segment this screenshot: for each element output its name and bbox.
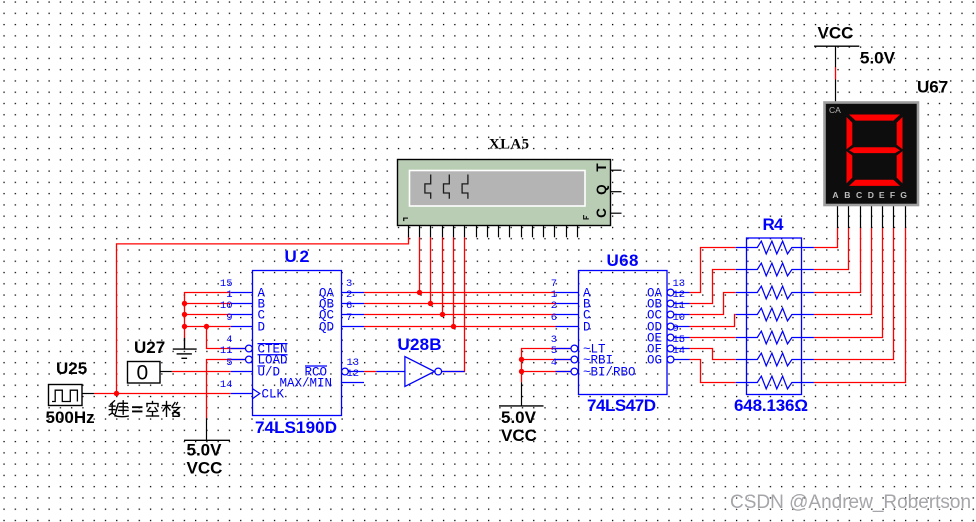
wire VCC to display CA [835, 67, 837, 80]
U68 box [579, 271, 668, 395]
svg-text:U28B: U28B [398, 335, 442, 354]
svg-text:R4: R4 [763, 215, 785, 234]
U2 pin D stub [231, 326, 253, 328]
watermark CSDN [730, 492, 972, 514]
op U68 74LS47D decoder [551, 251, 690, 415]
svg-text:MAX/MIN: MAX/MIN [279, 376, 332, 390]
wire U2 inputs A-D tied to ground rail [185, 293, 231, 339]
wire LOAD to 5V rail below U2 [207, 360, 246, 419]
wire CLK net: U25 output to U2 CLK [94, 393, 231, 395]
svg-text:5.0V: 5.0V [187, 441, 223, 460]
wire CTEN to D net [207, 327, 246, 349]
svg-text:0: 0 [137, 362, 149, 385]
VCC bar [814, 45, 859, 47]
U67 segment e [847, 151, 853, 183]
svg-text:D: D [868, 190, 874, 200]
svg-text:14: 14 [220, 379, 233, 391]
glyph = [133, 407, 142, 411]
junction dot CLK [114, 391, 119, 396]
wire OF to R4 row6 [690, 349, 736, 360]
U28B input stub [376, 371, 405, 373]
svg-text:U67: U67 [917, 78, 948, 97]
svg-text:U68: U68 [607, 251, 639, 270]
wire OB to R4 row2 [690, 270, 736, 304]
svg-text:7: 7 [346, 312, 352, 324]
U28B triangle [405, 357, 435, 387]
U2 pin B stub [231, 303, 253, 305]
svg-text:11: 11 [673, 300, 686, 312]
wire OA to R4 row1 [690, 248, 736, 293]
glyph 键 [109, 401, 128, 417]
resistor R4 element 6 [736, 353, 814, 366]
svg-text:6: 6 [346, 300, 352, 312]
U27 body [128, 362, 161, 384]
stem [521, 382, 523, 406]
U68 pin D stub [556, 326, 579, 328]
U68 pin ~LT stub and bubble [556, 348, 571, 350]
U2 pin QD stub [342, 326, 365, 328]
wire R4 row4 to display pin D [814, 228, 872, 315]
XLA5 corner icon left [403, 218, 408, 222]
resistor R4 element 3 [736, 286, 814, 299]
U68 pin ~RBI stub and bubble [556, 359, 571, 361]
svg-text:500Hz: 500Hz [46, 408, 95, 427]
resistor pack R4 [734, 215, 808, 415]
svg-text:D: D [583, 321, 591, 335]
resistor R4 element 2 [736, 263, 814, 276]
wire OE to R4 row5 [690, 337, 736, 339]
U67 segment d [849, 180, 900, 186]
junction dot C input [182, 312, 187, 317]
svg-text:5: 5 [551, 345, 557, 357]
junction dot B input [182, 301, 187, 306]
U67 top pin [835, 80, 837, 104]
power VCC below U68 [499, 382, 544, 445]
svg-text:VCC: VCC [187, 459, 223, 478]
U68 pin B stub [556, 303, 579, 305]
svg-text:12: 12 [347, 368, 360, 380]
wire QC: U2 to U68 C [364, 314, 556, 316]
svg-text:XLA5: XLA5 [489, 137, 529, 153]
junction dot D input [182, 324, 187, 329]
XLA5 waveform glyph 1 [425, 175, 431, 199]
U2 pin QB stub [342, 303, 365, 305]
U25 clock glyph [52, 390, 77, 401]
display U67 seven segment [825, 78, 949, 229]
svg-text:U/D: U/D [258, 365, 281, 379]
U25 body [49, 385, 83, 406]
wire CLK branch up-left loop to XLA5 pin1 [117, 237, 409, 394]
svg-text:648.136Ω: 648.136Ω [734, 396, 808, 415]
wire U68 ~LT ~RBI ~BI/RBO to 5V rail [522, 349, 571, 383]
stem [206, 418, 208, 440]
wire QA: U2 to U68 A [364, 292, 556, 294]
svg-text:5: 5 [226, 357, 232, 369]
U67 pins A-G [838, 205, 906, 228]
wire OG to R4 row7 [690, 360, 736, 383]
U67 pin letters [832, 190, 907, 200]
svg-text:74LS190D: 74LS190D [255, 418, 337, 437]
U68 pin ~BI/RBO stub and bubble [556, 371, 571, 373]
U67 segment b [897, 117, 903, 149]
wire RCO to U28B input [364, 371, 376, 373]
U2 pin CLK stub and wedge [231, 393, 253, 395]
svg-text:A: A [832, 190, 838, 200]
svg-text:B: B [844, 190, 850, 200]
resistor R4 element 4 [736, 308, 814, 321]
svg-text:U2: U2 [285, 247, 310, 266]
wire R4 row3 to display pin C [814, 228, 861, 293]
junction dot CTEN/D [204, 324, 209, 329]
wire XLA5 pin4 to QC net [442, 237, 444, 314]
svg-text:CSDN @Andrew_Robertson: CSDN @Andrew_Robertson [730, 492, 971, 513]
svg-text:CA: CA [829, 105, 841, 115]
U67 body [825, 103, 919, 206]
U2 pin RCO bubble and stub [342, 368, 349, 375]
svg-text:D: D [258, 321, 266, 335]
svg-text:6: 6 [551, 312, 557, 324]
U28B output bubble [435, 368, 442, 375]
wire R4 row6 to display pin F [814, 228, 894, 360]
junction dot ~BI/RBO [519, 369, 524, 374]
svg-text:E: E [879, 190, 885, 200]
power VCC below U2 [184, 418, 230, 477]
wire QB: U2 to U68 B [364, 303, 556, 305]
ground symbol [173, 338, 197, 358]
U68 pin C stub [556, 314, 579, 316]
wire R4 row1 to display pin A [814, 228, 838, 248]
XLA5 waveform glyph 3 [462, 175, 468, 199]
wire OD to R4 row4 [690, 315, 736, 327]
U67 segment g [849, 147, 900, 153]
svg-text:11: 11 [220, 345, 233, 357]
glyph 格 [163, 402, 180, 417]
U2 pin CTEN stub and bubble [231, 348, 246, 350]
U2 pin C stub [231, 314, 253, 316]
instrument XLA5 logic analyzer [398, 137, 622, 238]
svg-text:10: 10 [220, 300, 233, 312]
U2 pin A stub [231, 292, 253, 294]
junction dot QA [417, 290, 422, 295]
svg-text:14: 14 [673, 345, 686, 357]
bar [499, 405, 544, 407]
wire R4 row2 to display pin B [814, 228, 849, 270]
XLA5 body [398, 160, 611, 226]
source U25 500Hz clock [46, 359, 95, 427]
svg-text:U27: U27 [134, 338, 165, 357]
resistor R4 element 1 [736, 241, 814, 254]
wire U27 to U/D [172, 371, 231, 373]
svg-text:VCC: VCC [818, 24, 854, 43]
op-amp U28B inverter gate [376, 335, 464, 387]
XLA5 screen [410, 171, 586, 207]
XLA5 corner icon right [583, 215, 589, 220]
U2 pin U/D stub [231, 371, 253, 373]
resistor R4 element 5 [736, 331, 814, 344]
junction dot QC [440, 312, 445, 317]
VCC stem [835, 46, 837, 67]
bar [184, 439, 230, 441]
wire R4 row7 to display pin G [814, 228, 906, 383]
U68 output bubbles and stubs OA-OG [667, 289, 674, 296]
U2 pin LOAD stub and bubble [231, 359, 246, 361]
key caption 键 = 空格 [109, 401, 179, 417]
svg-text:F: F [890, 190, 895, 200]
op U2 74LS190D counter [220, 247, 364, 437]
wire OC to R4 row3 [690, 293, 736, 315]
svg-text:C: C [594, 208, 609, 218]
wire R4 row5 to display pin E [814, 228, 883, 338]
svg-text:4: 4 [551, 357, 557, 369]
U28B output stub [442, 371, 465, 373]
svg-text:5.0V: 5.0V [501, 408, 537, 427]
U67 segment c [897, 151, 903, 183]
junction dot QD [451, 324, 456, 329]
svg-text:OG: OG [647, 353, 662, 367]
U2 pin QC stub [342, 314, 365, 316]
wire XLA5 pin6 to U28B output [442, 237, 465, 371]
svg-text:2: 2 [551, 300, 557, 312]
junction dot QB [428, 301, 433, 306]
svg-text:Q: Q [594, 184, 609, 195]
svg-text:74LS47D: 74LS47D [587, 396, 656, 415]
power VCC top [814, 24, 896, 68]
U2 pin QA stub [342, 292, 365, 294]
U27 output stub [160, 371, 172, 373]
U2 box [253, 271, 342, 416]
svg-text:VCC: VCC [501, 426, 537, 445]
U67 segment f [847, 117, 853, 149]
junction dot ~RBI [519, 357, 524, 362]
wire XLA5 pin2 to QA net [419, 237, 421, 292]
U67 segment a [849, 115, 900, 121]
key U27 [128, 338, 172, 385]
XLA5 bottom pins 1-16 [409, 225, 578, 237]
resistor R4 element 7 [736, 376, 814, 389]
R4 box [747, 238, 802, 395]
svg-text:9: 9 [226, 312, 232, 324]
XLA5 waveform glyph 2 [444, 175, 450, 199]
wire XLA5 pin3 to QB net [430, 237, 432, 303]
wire QD: U2 to U68 D [364, 326, 556, 328]
svg-text:QD: QD [319, 321, 334, 335]
svg-text:T: T [594, 163, 609, 172]
glyph 空 [147, 402, 159, 417]
svg-text:5.0V: 5.0V [860, 49, 896, 68]
svg-text:U25: U25 [56, 359, 87, 378]
svg-text:C: C [856, 190, 862, 200]
svg-text:~BI/RBO: ~BI/RBO [583, 365, 636, 379]
U2 pin MAX/MIN stub [342, 382, 365, 384]
U25 output stub [82, 393, 94, 395]
U68 pin A stub [556, 292, 579, 294]
svg-text:G: G [900, 190, 907, 200]
wire XLA5 pin5 to QD net [453, 237, 455, 326]
XLA5 right pins T,Q,C [611, 170, 622, 213]
